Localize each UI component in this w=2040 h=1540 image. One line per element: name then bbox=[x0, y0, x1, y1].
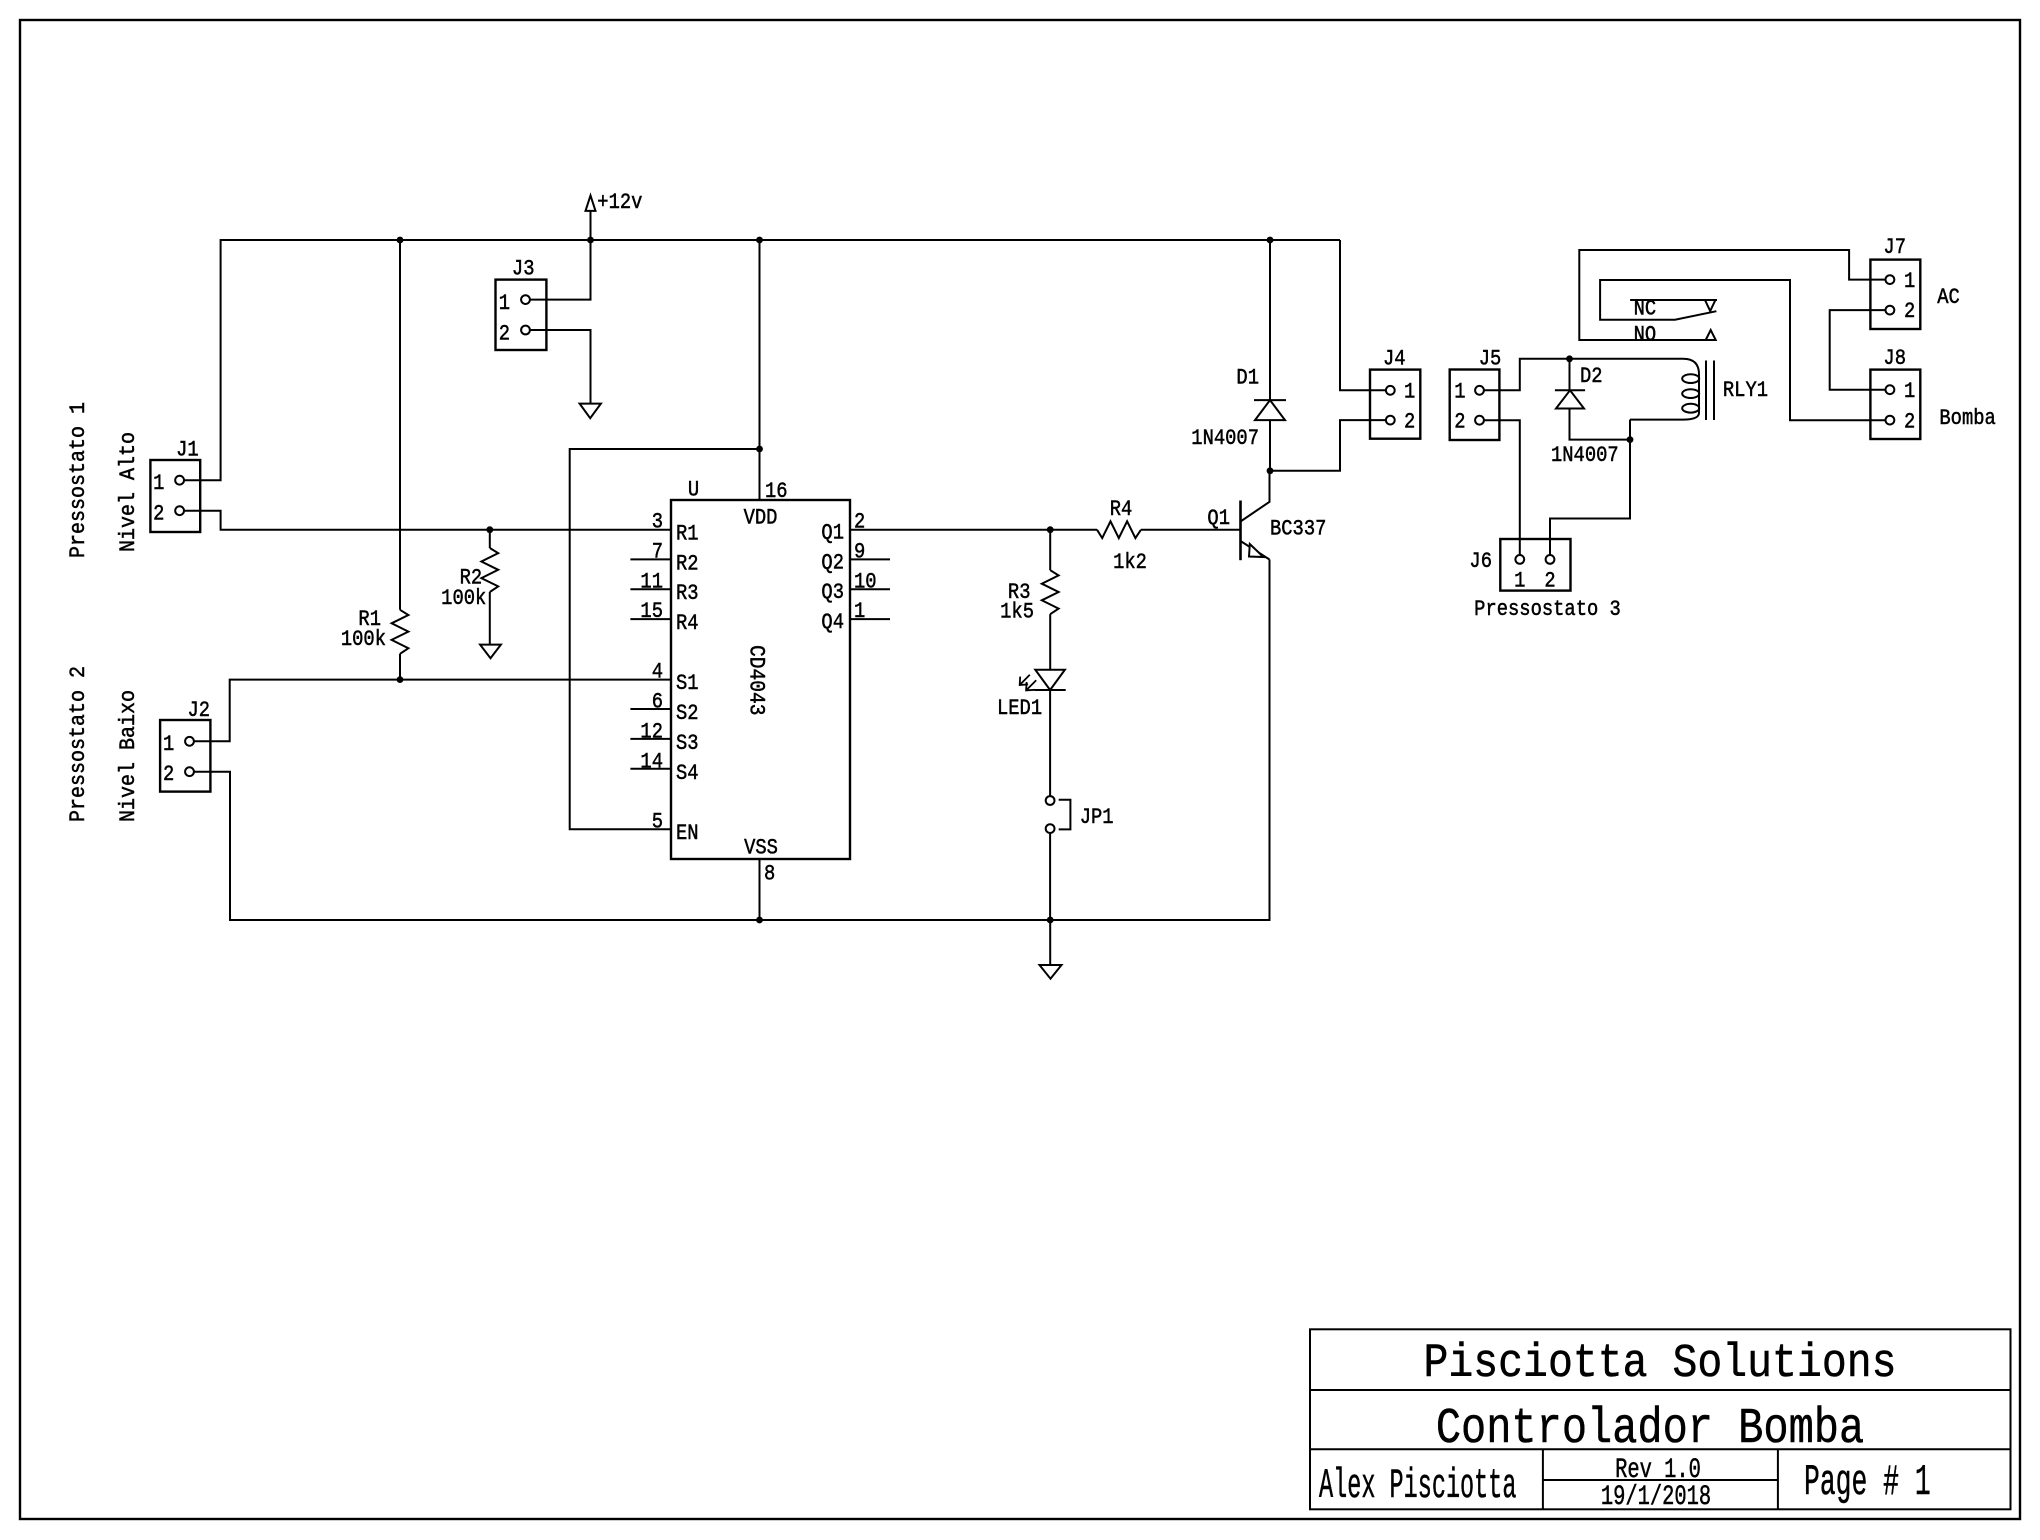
svg-text:15: 15 bbox=[640, 600, 663, 625]
svg-text:J5: J5 bbox=[1479, 347, 1502, 372]
svg-text:NO: NO bbox=[1634, 323, 1657, 348]
svg-text:7: 7 bbox=[652, 540, 663, 565]
svg-text:Page # 1: Page # 1 bbox=[1804, 1458, 1931, 1508]
svg-text:2: 2 bbox=[854, 511, 865, 536]
svg-text:R4: R4 bbox=[676, 612, 699, 637]
svg-text:3: 3 bbox=[652, 511, 663, 536]
svg-text:Q4: Q4 bbox=[821, 611, 844, 636]
svg-text:1: 1 bbox=[1404, 380, 1415, 405]
svg-text:9: 9 bbox=[854, 540, 865, 565]
svg-text:1: 1 bbox=[1904, 380, 1915, 405]
svg-text:VSS: VSS bbox=[744, 836, 778, 861]
svg-text:Pressostato 1: Pressostato 1 bbox=[66, 402, 91, 558]
svg-text:J8: J8 bbox=[1883, 347, 1906, 372]
svg-text:+12v: +12v bbox=[597, 191, 642, 216]
svg-text:Q3: Q3 bbox=[821, 581, 844, 606]
svg-text:D1: D1 bbox=[1236, 366, 1259, 391]
svg-text:2: 2 bbox=[499, 322, 510, 347]
svg-text:2: 2 bbox=[1544, 569, 1555, 594]
svg-text:NC: NC bbox=[1634, 297, 1657, 322]
svg-text:U: U bbox=[688, 478, 699, 503]
svg-text:Nivel Baixo: Nivel Baixo bbox=[116, 690, 141, 822]
svg-text:16: 16 bbox=[765, 480, 788, 505]
svg-text:1N4007: 1N4007 bbox=[1551, 444, 1619, 469]
svg-text:R4: R4 bbox=[1110, 498, 1133, 523]
svg-text:5: 5 bbox=[652, 811, 663, 836]
svg-text:Alex Pisciotta: Alex Pisciotta bbox=[1319, 1464, 1516, 1511]
svg-text:VDD: VDD bbox=[744, 506, 778, 531]
svg-text:Bomba: Bomba bbox=[1939, 407, 1995, 432]
svg-text:D2: D2 bbox=[1580, 365, 1603, 390]
svg-text:19/1/2018: 19/1/2018 bbox=[1601, 1482, 1711, 1513]
svg-text:EN: EN bbox=[676, 822, 699, 847]
svg-text:Pressostato 3: Pressostato 3 bbox=[1474, 598, 1621, 623]
svg-text:S3: S3 bbox=[676, 732, 699, 757]
svg-text:J6: J6 bbox=[1469, 550, 1492, 575]
svg-text:2: 2 bbox=[163, 763, 174, 788]
svg-text:1k5: 1k5 bbox=[1000, 600, 1034, 625]
svg-text:100k: 100k bbox=[341, 628, 386, 653]
svg-text:Q1: Q1 bbox=[821, 521, 844, 546]
svg-text:R1: R1 bbox=[676, 522, 699, 547]
svg-text:14: 14 bbox=[640, 750, 663, 775]
svg-text:Pressostato 2: Pressostato 2 bbox=[66, 666, 91, 822]
svg-text:1: 1 bbox=[163, 733, 174, 758]
svg-text:6: 6 bbox=[652, 690, 663, 715]
svg-text:11: 11 bbox=[640, 570, 663, 595]
svg-text:1k2: 1k2 bbox=[1113, 551, 1147, 576]
svg-text:J3: J3 bbox=[512, 257, 535, 282]
svg-text:2: 2 bbox=[1904, 410, 1915, 435]
svg-text:1N4007: 1N4007 bbox=[1191, 427, 1259, 452]
svg-text:100k: 100k bbox=[441, 587, 486, 612]
svg-text:2: 2 bbox=[153, 502, 164, 527]
svg-text:S1: S1 bbox=[676, 672, 699, 697]
svg-text:R2: R2 bbox=[676, 552, 699, 577]
svg-text:Nivel Alto: Nivel Alto bbox=[116, 432, 141, 552]
svg-text:Pisciotta Solutions: Pisciotta Solutions bbox=[1423, 1338, 1896, 1391]
svg-text:8: 8 bbox=[764, 862, 775, 887]
svg-text:BC337: BC337 bbox=[1270, 517, 1326, 542]
svg-text:J7: J7 bbox=[1883, 236, 1906, 261]
svg-text:LED1: LED1 bbox=[997, 697, 1042, 722]
svg-text:1: 1 bbox=[1454, 380, 1465, 405]
svg-text:1: 1 bbox=[1514, 569, 1525, 594]
svg-text:12: 12 bbox=[640, 720, 663, 745]
svg-text:J1: J1 bbox=[176, 438, 199, 463]
svg-text:2: 2 bbox=[1454, 410, 1465, 435]
svg-text:1: 1 bbox=[854, 600, 865, 625]
svg-text:Controlador Bomba: Controlador Bomba bbox=[1436, 1401, 1864, 1457]
svg-text:Q2: Q2 bbox=[821, 551, 844, 576]
svg-text:1: 1 bbox=[153, 472, 164, 497]
svg-text:4: 4 bbox=[652, 661, 663, 686]
svg-text:2: 2 bbox=[1904, 300, 1915, 325]
svg-text:2: 2 bbox=[1404, 410, 1415, 435]
svg-text:RLY1: RLY1 bbox=[1723, 379, 1768, 404]
svg-text:J2: J2 bbox=[188, 699, 211, 724]
svg-text:10: 10 bbox=[854, 570, 877, 595]
svg-text:1: 1 bbox=[499, 292, 510, 317]
svg-text:J4: J4 bbox=[1383, 347, 1406, 372]
svg-text:S2: S2 bbox=[676, 702, 699, 727]
svg-text:S4: S4 bbox=[676, 762, 699, 787]
svg-text:R3: R3 bbox=[676, 582, 699, 607]
svg-text:Q1: Q1 bbox=[1207, 507, 1230, 532]
svg-text:AC: AC bbox=[1937, 286, 1960, 311]
svg-text:JP1: JP1 bbox=[1080, 806, 1114, 831]
svg-text:1: 1 bbox=[1904, 270, 1915, 295]
svg-text:CD4043: CD4043 bbox=[743, 645, 767, 715]
